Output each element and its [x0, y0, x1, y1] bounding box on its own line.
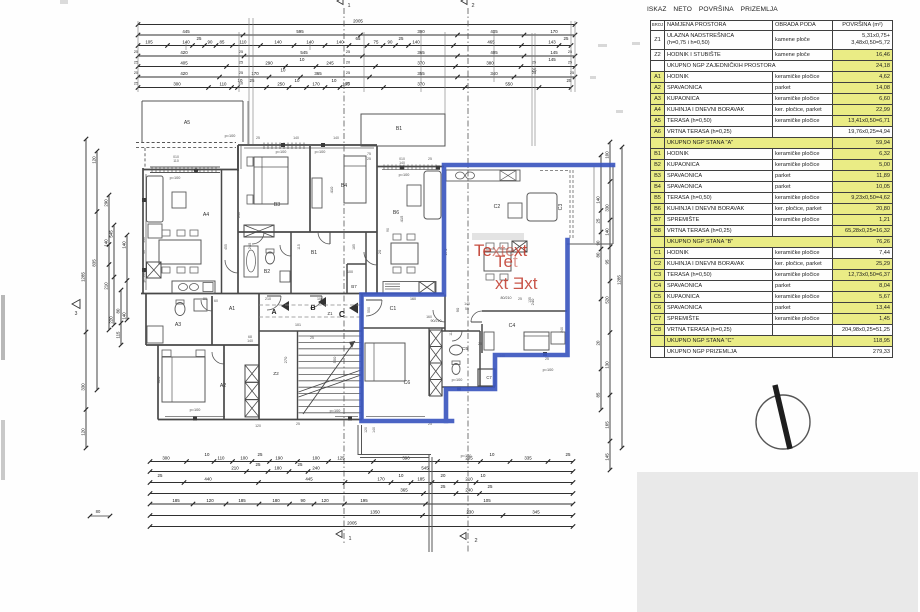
watermark background	[472, 233, 524, 240]
svg-text:80: 80	[116, 308, 121, 313]
svg-text:300: 300	[173, 81, 181, 86]
svg-text:p=100: p=100	[330, 409, 341, 413]
svg-text:145: 145	[550, 50, 558, 55]
blue apartment C boundary	[362, 165, 614, 421]
armchair A4	[148, 224, 162, 238]
svg-text:p=100: p=100	[399, 173, 410, 177]
svg-text:A3: A3	[175, 322, 181, 328]
door C5	[452, 331, 462, 341]
svg-text:595: 595	[296, 29, 304, 34]
svg-text:B7: B7	[351, 284, 357, 289]
svg-text:165: 165	[605, 421, 610, 429]
svg-text:140: 140	[372, 427, 376, 433]
svg-text:C: C	[339, 309, 345, 319]
svg-text:40: 40	[142, 250, 146, 254]
outer wall top B section	[238, 145, 377, 148]
top dim chain row6	[136, 68, 577, 80]
svg-text:B: B	[310, 305, 315, 312]
wall A3/A2 divider	[146, 344, 259, 346]
wall B2 right	[290, 232, 292, 294]
svg-text:C7: C7	[486, 375, 492, 380]
right dim chain 2	[605, 140, 613, 472]
svg-text:120: 120	[255, 424, 261, 428]
svg-text:545: 545	[300, 50, 308, 55]
svg-text:250: 250	[277, 81, 285, 86]
svg-text:25: 25	[545, 357, 549, 361]
svg-text:140: 140	[122, 312, 127, 320]
svg-text:105: 105	[145, 39, 153, 44]
svg-text:140: 140	[104, 239, 109, 247]
svg-text:10: 10	[300, 57, 305, 62]
svg-text:Z1: Z1	[328, 311, 334, 316]
wall C4 left	[481, 324, 483, 353]
svg-text:p=100: p=100	[142, 272, 146, 283]
svg-text:25: 25	[568, 61, 572, 65]
svg-text:Z2: Z2	[273, 371, 279, 377]
svg-text:25: 25	[134, 82, 138, 86]
svg-text:p=100: p=100	[461, 454, 472, 458]
svg-text:170: 170	[377, 476, 385, 481]
right dim chain master	[617, 145, 625, 450]
wall under B3/B4	[238, 231, 377, 233]
left dim chain 5	[116, 288, 124, 347]
svg-text:90/210: 90/210	[431, 319, 442, 323]
svg-text:115: 115	[449, 330, 453, 336]
svg-text:145: 145	[548, 57, 556, 62]
left dim chain 4	[109, 223, 117, 327]
svg-text:185: 185	[238, 498, 246, 503]
svg-text:110: 110	[173, 159, 179, 163]
svg-text:330: 330	[81, 383, 86, 391]
svg-text:2005: 2005	[353, 18, 363, 23]
tiny wall dims	[142, 136, 564, 433]
svg-text:185: 185	[352, 244, 356, 250]
svg-text:115: 115	[116, 331, 121, 339]
wall stairs right	[361, 294, 363, 420]
svg-text:120: 120	[206, 498, 214, 503]
wall A3 right	[211, 296, 213, 345]
svg-text:1285: 1285	[617, 275, 622, 285]
svg-text:140: 140	[142, 237, 146, 243]
door C4	[471, 311, 482, 322]
outer wall bottom	[158, 417, 362, 420]
svg-text:365: 365	[400, 487, 408, 492]
svg-text:25: 25	[197, 36, 202, 41]
svg-text:10: 10	[332, 78, 337, 83]
top dim chain row7	[136, 78, 573, 90]
svg-text:25: 25	[239, 50, 243, 54]
compass needle	[775, 385, 790, 449]
svg-text:1: 1	[348, 536, 351, 542]
left dim chain master 1285	[81, 137, 89, 450]
svg-text:10: 10	[205, 452, 210, 457]
svg-text:75: 75	[367, 152, 371, 156]
svg-text:65: 65	[356, 36, 361, 41]
svg-text:120: 120	[81, 428, 86, 436]
door entry A	[267, 296, 281, 310]
svg-text:240: 240	[312, 465, 320, 470]
outer wall left	[143, 168, 146, 294]
svg-text:210: 210	[231, 465, 239, 470]
wall A2 right	[223, 345, 225, 420]
bed B3	[247, 157, 288, 204]
svg-text:170: 170	[550, 29, 558, 34]
sofa A4	[147, 176, 164, 222]
svg-text:20: 20	[377, 249, 382, 254]
svg-text:B1: B1	[396, 126, 402, 132]
outer wall B6 top	[377, 167, 444, 170]
svg-text:140: 140	[464, 302, 470, 306]
stairs Z1	[299, 336, 362, 414]
svg-text:25: 25	[250, 78, 255, 83]
bottom dim chain row6	[148, 509, 575, 517]
svg-text:80: 80	[596, 252, 601, 257]
svg-text:25: 25	[399, 36, 404, 41]
top dim extension lines	[138, 18, 575, 146]
svg-text:120: 120	[321, 498, 329, 503]
svg-text:300: 300	[162, 455, 170, 460]
svg-text:25: 25	[566, 452, 571, 457]
svg-text:25: 25	[532, 61, 536, 65]
B7 storage walls	[347, 264, 366, 294]
section line 1	[336, 0, 352, 545]
toilet A3	[175, 300, 185, 316]
svg-text:365: 365	[314, 71, 322, 76]
svg-text:140: 140	[274, 39, 282, 44]
svg-text:330: 330	[605, 204, 610, 212]
svg-text:290: 290	[104, 199, 109, 207]
svg-text:p=100: p=100	[315, 150, 326, 154]
svg-text:C5: C5	[462, 346, 468, 352]
svg-text:1285: 1285	[81, 272, 86, 282]
window markers	[142, 143, 547, 421]
svg-text:C6: C6	[404, 380, 411, 386]
bottom dim chain row5	[148, 498, 575, 506]
wall C1 bottom	[362, 327, 446, 329]
svg-text:1350: 1350	[370, 509, 380, 514]
wall A2 left	[157, 345, 159, 420]
svg-text:185: 185	[417, 476, 425, 481]
compass circle	[756, 395, 810, 449]
gray scan block bottom right	[637, 472, 918, 612]
wall A|B vertical	[237, 146, 239, 294]
bottom dim chain row2	[148, 462, 575, 474]
svg-text:10: 10	[490, 452, 495, 457]
svg-text:320: 320	[156, 376, 161, 383]
area table	[650, 20, 893, 358]
svg-text:100: 100	[605, 151, 610, 159]
watermark text line 1	[474, 241, 538, 293]
svg-text:25: 25	[564, 36, 569, 41]
svg-text:xt Ǝxt: xt Ǝxt	[495, 274, 538, 293]
svg-text:410: 410	[329, 186, 334, 193]
svg-text:p=100: p=100	[225, 134, 236, 138]
wall B3|B4	[309, 146, 311, 232]
left dim chain 6	[122, 233, 130, 322]
svg-text:230: 230	[466, 509, 474, 514]
svg-text:25: 25	[256, 462, 261, 467]
svg-text:105: 105	[483, 498, 491, 503]
svg-text:210: 210	[265, 297, 271, 301]
svg-text:C3: C3	[558, 204, 564, 211]
toilet B2	[266, 249, 275, 264]
desk B4	[312, 178, 322, 208]
svg-text:1: 1	[347, 3, 350, 9]
left dim chain 2	[92, 149, 100, 392]
wall C5 right	[479, 331, 481, 387]
entry label B	[310, 297, 326, 312]
svg-text:140: 140	[247, 339, 253, 343]
svg-text:545: 545	[109, 230, 114, 238]
room labels	[175, 183, 516, 389]
door entry B	[310, 296, 322, 308]
svg-text:75: 75	[374, 39, 379, 44]
svg-text:550: 550	[332, 356, 337, 363]
wardrobe C4	[551, 332, 565, 344]
svg-text:240: 240	[560, 327, 564, 333]
svg-text:240: 240	[465, 487, 473, 492]
svg-text:160: 160	[410, 297, 416, 301]
svg-text:130: 130	[605, 361, 610, 369]
svg-text:520: 520	[605, 296, 610, 304]
door B6	[364, 252, 377, 265]
svg-text:A: A	[271, 309, 276, 316]
svg-text:90: 90	[455, 307, 460, 312]
svg-text:20: 20	[346, 61, 350, 65]
right dim chain 3	[596, 153, 604, 412]
dining table C2	[484, 243, 511, 280]
wall C5 bottom	[442, 386, 495, 388]
svg-text:380: 380	[486, 60, 494, 65]
svg-text:25: 25	[518, 297, 522, 301]
svg-text:25: 25	[488, 484, 493, 489]
wall A3 left	[145, 294, 147, 346]
desk C4	[484, 332, 494, 350]
svg-text:25: 25	[134, 71, 138, 75]
svg-text:10: 10	[295, 78, 300, 83]
svg-text:B4: B4	[341, 183, 347, 189]
svg-text:95: 95	[605, 259, 610, 264]
top dim chain row3	[136, 36, 573, 48]
svg-text:115: 115	[297, 244, 301, 250]
wall B4|B6	[376, 146, 378, 294]
svg-text:455: 455	[224, 244, 228, 250]
svg-text:p=100: p=100	[543, 368, 554, 372]
svg-text:420: 420	[180, 50, 188, 55]
svg-text:210: 210	[465, 476, 473, 481]
svg-text:110: 110	[220, 81, 228, 86]
svg-text:B6: B6	[393, 210, 399, 216]
svg-text:10: 10	[281, 68, 286, 73]
svg-text:140: 140	[336, 39, 344, 44]
kitchen sink hatch B6	[419, 282, 435, 294]
svg-text:101: 101	[295, 323, 301, 327]
bathtub B2	[244, 246, 258, 277]
svg-text:B1: B1	[311, 250, 317, 256]
svg-text:835: 835	[92, 259, 97, 267]
bottom dim chain row1	[148, 452, 575, 464]
svg-text:145: 145	[605, 453, 610, 461]
svg-text:C2: C2	[494, 204, 501, 210]
sink C5	[450, 345, 463, 355]
door A2	[212, 352, 224, 364]
corridor top wall	[141, 293, 444, 295]
top dim chain total 2005	[136, 18, 577, 26]
svg-text:2: 2	[474, 538, 477, 544]
svg-text:185: 185	[172, 498, 180, 503]
wardrobe strip A2	[245, 365, 259, 417]
top dim chain row2	[136, 29, 577, 37]
svg-text:140: 140	[412, 39, 420, 44]
svg-text:90: 90	[301, 498, 306, 503]
kitchen counter A4	[172, 281, 215, 293]
wardrobe B3	[244, 225, 274, 237]
svg-text:10: 10	[399, 473, 404, 478]
svg-text:190: 190	[275, 455, 283, 460]
svg-text:210: 210	[104, 282, 109, 290]
svg-text:170: 170	[312, 81, 320, 86]
svg-text:2: 2	[471, 3, 474, 9]
svg-text:245: 245	[247, 242, 252, 249]
svg-text:100: 100	[312, 455, 320, 460]
scan bleed specks	[590, 42, 640, 113]
table title	[647, 6, 778, 13]
tv table A4	[172, 192, 186, 208]
section line 2	[460, 0, 478, 552]
left flag 3	[72, 300, 80, 318]
interior small dims	[156, 186, 535, 383]
svg-text:25: 25	[346, 82, 350, 86]
door A3	[201, 300, 212, 311]
wall B hall right	[365, 232, 367, 294]
svg-text:135: 135	[528, 297, 532, 303]
svg-text:A5: A5	[184, 120, 190, 126]
wall C4 top	[482, 310, 567, 312]
canopy dashed lines	[259, 305, 361, 317]
terrace B1	[361, 114, 445, 146]
door C1-C2	[433, 310, 445, 322]
C7 storage box	[478, 369, 495, 386]
kitchen counter B6	[383, 282, 436, 294]
door A4-hall	[225, 260, 238, 273]
svg-text:550: 550	[367, 307, 371, 313]
svg-text:Te: Te	[474, 241, 492, 260]
wardrobe strip C6|C5	[430, 330, 443, 396]
svg-text:25: 25	[296, 422, 300, 426]
svg-text:25: 25	[570, 71, 574, 75]
small 80 dim	[88, 509, 112, 518]
svg-text:2005: 2005	[347, 520, 357, 525]
svg-text:25: 25	[298, 462, 303, 467]
kitchen hatch C2	[512, 241, 527, 252]
svg-text:p=100: p=100	[190, 408, 201, 412]
svg-text:25: 25	[239, 61, 243, 65]
terrace A5	[136, 101, 248, 167]
svg-text:85: 85	[596, 392, 601, 397]
svg-text:B3: B3	[274, 202, 280, 208]
svg-text:20: 20	[441, 473, 446, 478]
svg-text:420: 420	[180, 71, 188, 76]
svg-text:A4: A4	[203, 212, 209, 218]
svg-text:405: 405	[180, 60, 188, 65]
svg-text:25: 25	[441, 484, 446, 489]
svg-text:245: 245	[326, 60, 334, 65]
coffee table C2	[508, 203, 522, 218]
svg-text:170: 170	[251, 71, 259, 76]
svg-text:80/210: 80/210	[501, 296, 512, 300]
svg-text:550: 550	[505, 81, 513, 86]
svg-text:10: 10	[239, 82, 243, 86]
svg-text:25: 25	[568, 50, 572, 54]
kitchen counter C2	[446, 170, 520, 181]
dining table A4	[159, 230, 201, 273]
svg-text:25: 25	[478, 342, 482, 346]
svg-text:B2: B2	[264, 269, 270, 275]
door B2	[280, 245, 291, 256]
svg-text:3: 3	[75, 311, 78, 317]
svg-text:100: 100	[347, 270, 353, 274]
svg-text:120: 120	[364, 427, 368, 433]
bottom dim chain row3	[148, 473, 575, 485]
left dim chain 3	[104, 193, 112, 332]
svg-text:195: 195	[360, 498, 368, 503]
svg-text:90: 90	[596, 240, 601, 245]
svg-text:290: 290	[265, 60, 273, 65]
svg-text:140: 140	[333, 136, 339, 140]
svg-text:143: 143	[548, 39, 556, 44]
window labels p=100	[142, 134, 553, 458]
sofa B6	[424, 171, 441, 219]
svg-text:110: 110	[240, 39, 248, 44]
svg-text:25: 25	[428, 157, 432, 161]
svg-text:A2: A2	[220, 383, 226, 389]
door B3	[252, 232, 264, 244]
svg-text:160: 160	[426, 315, 432, 319]
svg-text:90: 90	[386, 228, 390, 232]
svg-text:p=100: p=100	[276, 150, 287, 154]
svg-text:25: 25	[134, 50, 138, 54]
svg-text:445: 445	[305, 476, 313, 481]
svg-text:100: 100	[240, 455, 248, 460]
svg-text:140: 140	[293, 136, 299, 140]
svg-text:85: 85	[220, 39, 225, 44]
svg-text:25: 25	[596, 218, 601, 223]
svg-text:25: 25	[532, 71, 536, 75]
bed C4	[524, 332, 549, 350]
svg-text:120: 120	[92, 156, 97, 164]
svg-text:C4: C4	[509, 323, 516, 329]
C6 bottom window sill	[366, 416, 425, 418]
svg-text:140: 140	[596, 196, 601, 204]
svg-text:80: 80	[96, 509, 101, 514]
svg-text:100: 100	[317, 297, 323, 301]
svg-text:125: 125	[337, 455, 345, 460]
svg-text:p=100: p=100	[170, 176, 181, 180]
svg-text:Te: Te	[495, 252, 513, 271]
svg-text:545: 545	[421, 465, 429, 470]
wall stairs top	[259, 330, 362, 332]
outer wall top A4 with window band	[143, 167, 238, 173]
svg-text:140: 140	[122, 241, 127, 249]
svg-text:10: 10	[481, 473, 486, 478]
svg-text:110: 110	[218, 455, 226, 460]
svg-text:220: 220	[109, 316, 114, 324]
wall C1|C2	[444, 295, 446, 332]
svg-text:t: t	[513, 252, 518, 271]
wall C5 top	[442, 330, 480, 332]
bed B4	[344, 156, 366, 203]
svg-text:140: 140	[605, 228, 610, 236]
